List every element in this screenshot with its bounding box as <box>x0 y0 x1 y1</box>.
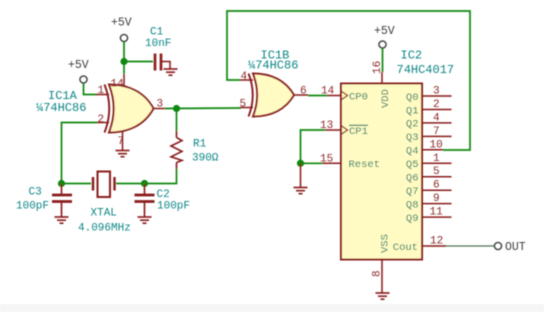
clock mark CP1 <box>341 126 348 135</box>
svg-text:3: 3 <box>433 86 440 98</box>
svg-text:4: 4 <box>241 71 248 83</box>
ground at IC1A pin 7 <box>116 151 130 157</box>
svg-text:9: 9 <box>433 193 440 205</box>
svg-text:16: 16 <box>372 61 384 74</box>
wire IC1A pin2 net (to C3/XTAL junction) <box>62 123 98 185</box>
svg-text:Q1: Q1 <box>406 105 419 117</box>
svg-text:CP0: CP0 <box>349 91 368 103</box>
svg-text:Q0: Q0 <box>406 92 419 104</box>
ground at C1 <box>164 69 178 75</box>
svg-text:7: 7 <box>433 126 440 138</box>
wire C1 right to ground <box>162 62 171 69</box>
IC2 pin 8 stub (VSS) <box>381 260 383 293</box>
svg-text:2: 2 <box>433 99 440 111</box>
svg-text:5: 5 <box>240 99 247 111</box>
clock mark CP0 <box>341 91 348 100</box>
svg-text:3: 3 <box>157 99 164 111</box>
svg-text:11: 11 <box>430 207 444 219</box>
svg-text:5: 5 <box>433 166 440 178</box>
svg-text:Q7: Q7 <box>406 186 419 198</box>
output terminal OUT <box>494 242 501 249</box>
xor gate IC1B pin stubs <box>240 80 308 108</box>
xor gate IC1A input arc <box>105 85 110 133</box>
svg-text:C1: C1 <box>150 27 164 39</box>
xor gate IC1A pin stubs <box>96 74 165 150</box>
xor gate IC1A body <box>109 85 154 133</box>
crystal XTAL <box>93 172 115 198</box>
IC2 left pin stubs: CP0 CP1 Reset <box>322 96 341 164</box>
junction CP1/Reset <box>297 160 304 167</box>
power +5V P2 (top, feeds C1 and IC1A pin14) <box>120 34 127 41</box>
svg-text:IC2: IC2 <box>401 49 423 63</box>
junction at pin3/R1 <box>173 105 180 112</box>
wire Reset <box>301 162 323 164</box>
wire crystal to right junction <box>116 183 145 185</box>
svg-text:1: 1 <box>98 85 105 97</box>
svg-text:100pF: 100pF <box>157 201 190 213</box>
xor gate IC1B body <box>253 74 294 117</box>
svg-text:Q3: Q3 <box>406 132 419 144</box>
svg-text:390Ω: 390Ω <box>192 153 219 165</box>
bottom page edge <box>0 304 544 312</box>
svg-text:Q9: Q9 <box>406 213 419 225</box>
IC2 pin 16 stub (VDD) <box>381 72 383 84</box>
svg-text:Q2: Q2 <box>406 119 419 131</box>
svg-text:Q4: Q4 <box>406 146 419 158</box>
svg-text:74HC4017: 74HC4017 <box>397 63 455 77</box>
ground at IC2 pin 8 <box>376 293 390 299</box>
svg-text:14: 14 <box>321 86 335 98</box>
wire XTAL left junction to crystal <box>62 183 92 185</box>
svg-text:+5V: +5V <box>374 25 395 38</box>
wire feedback loop from Q4 to IC1B pin4 <box>227 11 470 150</box>
wire P3 down to pin16 <box>382 48 384 72</box>
wire IC1A pin3 to IC1B pin5 <box>165 107 241 110</box>
svg-text:C2: C2 <box>157 189 170 201</box>
svg-text:2: 2 <box>98 114 105 126</box>
svg-text:¼74HC86: ¼74HC86 <box>248 59 298 73</box>
svg-text:¼74HC86: ¼74HC86 <box>36 101 86 115</box>
svg-text:7: 7 <box>118 136 125 148</box>
capacitor C3 <box>52 184 72 217</box>
wire junction down to R1 <box>176 109 178 132</box>
ground at CP1/Reset <box>294 188 308 194</box>
junction XTAL left / C3 <box>58 180 65 187</box>
svg-text:100pF: 100pF <box>16 201 49 213</box>
svg-text:10: 10 <box>430 139 443 151</box>
svg-text:VDD: VDD <box>380 89 392 108</box>
xor gate IC1B input arc <box>249 74 253 117</box>
wire junction down to ground <box>300 163 302 187</box>
svg-text:10nF: 10nF <box>145 38 171 50</box>
ground at C3 <box>55 217 69 223</box>
svg-text:4: 4 <box>433 112 440 124</box>
wire P2 down to junction <box>123 42 125 62</box>
svg-text:R1: R1 <box>193 139 207 151</box>
IC2 right pin stubs Q0-Q9 <box>422 96 452 246</box>
ground at C2 <box>138 217 152 223</box>
resistor R1 <box>171 131 182 169</box>
svg-text:4.096MHz: 4.096MHz <box>78 223 131 235</box>
junction at +5V/C1/pin14 <box>120 58 127 65</box>
wire junction down to pin 14 <box>123 62 125 74</box>
svg-text:Q8: Q8 <box>406 199 419 211</box>
capacitor C1 <box>155 54 161 71</box>
svg-text:CP1: CP1 <box>349 126 368 138</box>
svg-text:Reset: Reset <box>349 159 381 171</box>
wire R1 bottom to XTAL/C2 junction <box>145 169 177 184</box>
svg-text:Q6: Q6 <box>406 173 419 185</box>
svg-text:6: 6 <box>433 180 440 192</box>
power +5V P3 (IC2 VDD) <box>379 41 386 48</box>
wire Cout to OUT <box>446 245 494 247</box>
wire IC1B pin6 to IC2 CP0 <box>308 95 327 97</box>
svg-text:8: 8 <box>372 270 384 277</box>
svg-text:OUT: OUT <box>505 241 526 254</box>
wire junction to C1 <box>124 61 153 63</box>
power +5V P1 (feeds IC1A pin 1) <box>80 76 87 83</box>
capacitor C2 <box>135 184 155 217</box>
wire P1 to IC1A pin1 <box>84 83 98 94</box>
wire CP1/Reset to ground <box>301 130 326 163</box>
svg-text:VSS: VSS <box>380 234 392 253</box>
svg-text:14: 14 <box>111 79 125 91</box>
svg-text:1: 1 <box>433 153 440 165</box>
svg-text:C3: C3 <box>29 187 42 199</box>
svg-text:Q5: Q5 <box>406 159 419 171</box>
svg-text:12: 12 <box>430 236 443 248</box>
svg-text:6: 6 <box>300 86 307 98</box>
svg-text:+5V: +5V <box>68 59 89 72</box>
svg-text:XTAL: XTAL <box>91 208 117 220</box>
svg-text:+5V: +5V <box>111 17 132 30</box>
junction XTAL right / C2 <box>141 180 148 187</box>
IC2 box 74HC4017 <box>341 84 422 260</box>
svg-text:Cout: Cout <box>393 242 418 254</box>
